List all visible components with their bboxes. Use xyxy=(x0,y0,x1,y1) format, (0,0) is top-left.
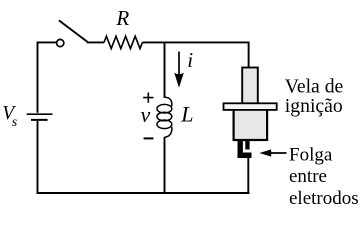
ground electrode (L-shaped) xyxy=(238,140,252,159)
battery Vs short plate xyxy=(31,119,48,121)
svg-text:ignição: ignição xyxy=(285,95,343,117)
spark plug terminal xyxy=(242,68,258,106)
bottom wire xyxy=(37,192,250,194)
left wire top segment xyxy=(37,42,39,113)
svg-text:v: v xyxy=(141,102,151,127)
current arrow i shaft xyxy=(178,52,180,76)
right wire top (to spark plug) xyxy=(248,42,250,69)
plus sign of v xyxy=(143,93,153,103)
battery Vs long plate xyxy=(27,113,53,115)
folga arrow head xyxy=(259,149,271,156)
wire top-left horizontal to switch contact xyxy=(38,41,57,43)
svg-text:entre: entre xyxy=(289,166,327,187)
current arrow i head xyxy=(174,73,184,88)
resistor R xyxy=(104,36,142,48)
spark plug flange xyxy=(224,103,277,110)
switch contact circle xyxy=(57,39,64,46)
switch blade (open) xyxy=(59,20,87,41)
wire switch to resistor xyxy=(87,41,104,43)
svg-text:i: i xyxy=(187,48,193,72)
minus sign of v xyxy=(144,137,154,139)
svg-text:R: R xyxy=(115,6,129,30)
center electrode xyxy=(245,140,249,150)
wire spark plug to bottom xyxy=(247,158,249,193)
spark plug shell xyxy=(234,107,268,140)
svg-text:Folga: Folga xyxy=(289,144,333,165)
svg-text:eletrodos: eletrodos xyxy=(289,188,359,209)
svg-text:s: s xyxy=(12,115,18,130)
folga arrow shaft xyxy=(269,152,287,154)
node junction: inductor branch top wire xyxy=(164,42,166,97)
wire resistor to top-right corner xyxy=(142,41,248,43)
left wire bottom segment xyxy=(37,121,39,194)
wire inductor bottom xyxy=(164,137,166,193)
inductor L coil xyxy=(157,97,172,137)
svg-text:L: L xyxy=(180,102,193,127)
